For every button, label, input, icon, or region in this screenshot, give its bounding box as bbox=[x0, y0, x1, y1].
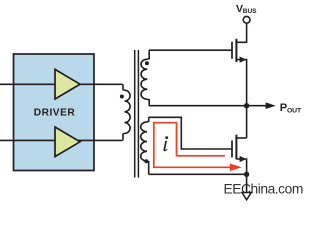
transistor Q1 source tap with arrow bbox=[236, 60, 246, 106]
core line left bbox=[134, 50, 136, 178]
transistor Q2 source tap with arrow bbox=[236, 159, 246, 174]
transistor Q2 gate bar bbox=[231, 141, 233, 158]
Pout output arrow bbox=[247, 105, 267, 107]
current loop i (red path) bbox=[154, 123, 232, 168]
current loop arrowhead bbox=[230, 164, 242, 172]
primary polarity dot bbox=[120, 95, 124, 99]
secondary bottom polarity dot bbox=[144, 159, 148, 163]
wire: bottom secondary bottom to source node bbox=[149, 173, 247, 175]
label i (drawn as vector italic i) bbox=[163, 136, 168, 151]
wire input A (left to primary top) bbox=[0, 83, 123, 85]
svg-text:EEChina.com: EEChina.com bbox=[224, 182, 303, 197]
wire input B (left to primary bottom) bbox=[0, 139, 123, 141]
wire: source node to ground bbox=[246, 174, 248, 192]
wire: Pout node down to Q2 drain bbox=[246, 106, 248, 138]
transformer T1 primary winding bbox=[123, 84, 130, 140]
wire: top secondary bottom to Pout node bbox=[149, 105, 247, 107]
node Pout junction dot bbox=[244, 103, 249, 108]
transistor Q1 drain tap bbox=[236, 23, 246, 42]
wire: bottom secondary top to Q2 gate (with jog) bbox=[149, 117, 233, 149]
transformer T1 secondary winding top bbox=[141, 50, 149, 105]
buffer amp 1 bbox=[55, 69, 80, 99]
transistor Q1 channel bar bbox=[235, 39, 237, 62]
VBUS terminal circle bbox=[243, 16, 250, 23]
node source junction dot bbox=[244, 172, 249, 177]
transformer T1 secondary winding bottom bbox=[141, 117, 149, 174]
secondary top polarity dot bbox=[145, 61, 149, 65]
transistor Q2 channel bar bbox=[235, 135, 237, 160]
core line right bbox=[137, 50, 139, 178]
wire: top secondary to gate of Q1 bbox=[149, 49, 233, 51]
driver box U1 bbox=[14, 54, 95, 171]
transistor Q2 drain tap bbox=[236, 137, 246, 139]
transistor Q1 gate bar bbox=[231, 42, 233, 59]
ground bbox=[242, 193, 251, 200]
svg-text:OUT: OUT bbox=[287, 107, 302, 114]
svg-text:DRIVER: DRIVER bbox=[34, 108, 76, 119]
svg-text:BUS: BUS bbox=[243, 8, 257, 15]
buffer amp 2 bbox=[55, 127, 80, 157]
